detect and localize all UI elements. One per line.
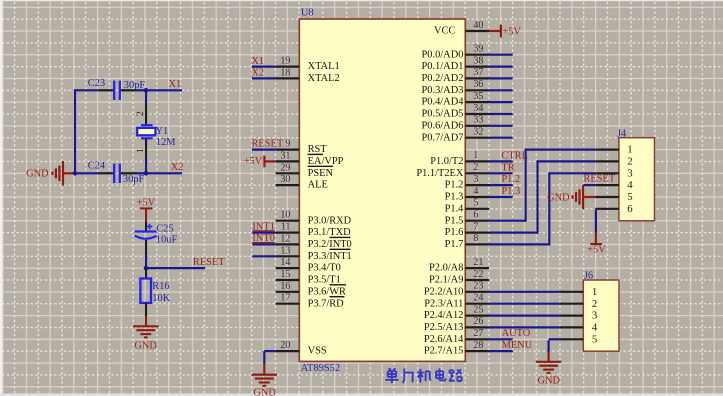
svg-text:5: 5: [473, 198, 478, 209]
node X2 junction: [144, 171, 149, 176]
pin 31 EA/VPP: [276, 160, 300, 162]
ground GND (left, sideways): [53, 161, 64, 185]
ground GND (J6): [536, 362, 561, 373]
pin 16 P3.6/WR: [276, 291, 300, 293]
svg-text:10uF: 10uF: [156, 235, 178, 246]
svg-text:31: 31: [280, 150, 290, 161]
svg-text:22: 22: [473, 269, 483, 280]
svg-text:X2: X2: [171, 162, 184, 173]
svg-text:28: 28: [473, 340, 483, 351]
svg-text:4: 4: [592, 322, 598, 334]
wire net P1.3: [489, 196, 513, 198]
node RESET junction: [144, 266, 149, 271]
svg-text:P1.4: P1.4: [445, 203, 465, 214]
IC U8 AT89S52 body: [299, 19, 465, 361]
svg-text:3: 3: [592, 310, 597, 322]
power +5V (pin 31): [264, 160, 275, 162]
svg-text:XTAL1: XTAL1: [308, 61, 340, 72]
pin 20 VSS: [276, 350, 300, 352]
pin 6 J4: [595, 208, 619, 210]
node C24 left junction: [73, 171, 78, 176]
svg-text:P0.7/AD7: P0.7/AD7: [422, 132, 464, 143]
wire to crystal top node: [136, 89, 147, 91]
pin 32 P0.7/AD7: [465, 137, 489, 139]
wire X2 stub: [146, 172, 182, 174]
svg-text:C25: C25: [156, 224, 173, 235]
svg-text:38: 38: [473, 55, 483, 66]
svg-text:10: 10: [280, 210, 290, 221]
wire X1 (pin 19): [252, 65, 276, 67]
svg-text:P0.5/AD5: P0.5/AD5: [422, 109, 464, 120]
pin 2 J4: [595, 160, 619, 162]
wire P0 stub: [489, 137, 513, 139]
svg-text:27: 27: [473, 328, 483, 339]
svg-text:TR: TR: [501, 162, 514, 173]
svg-text:2: 2: [592, 298, 597, 310]
svg-text:P0.0/AD0: P0.0/AD0: [422, 49, 464, 60]
svg-text:AUTO: AUTO: [502, 328, 531, 339]
wire P0 stub: [489, 77, 513, 79]
svg-text:26: 26: [473, 316, 483, 327]
svg-text:+5V: +5V: [244, 156, 263, 167]
svg-text:10K: 10K: [152, 293, 170, 304]
crystal Y1: [137, 125, 155, 138]
capacitor C23: [114, 81, 120, 100]
svg-text:39: 39: [473, 44, 483, 55]
ground GND (R16): [133, 326, 158, 337]
pin 4 P1.3: [465, 196, 489, 198]
svg-text:12: 12: [280, 233, 290, 244]
pin 2 J6: [560, 303, 584, 305]
svg-text:12M: 12M: [156, 137, 176, 148]
svg-text:P1.3: P1.3: [501, 186, 520, 197]
wire net RESET (J4 pin 4): [583, 184, 595, 186]
svg-text:RESET: RESET: [252, 139, 284, 150]
wire X2 (pin 18): [252, 77, 276, 79]
svg-text:GND: GND: [547, 192, 570, 203]
svg-text:P2.0/A8: P2.0/A8: [429, 263, 463, 274]
svg-text:+5V: +5V: [587, 245, 606, 256]
svg-text:4: 4: [473, 186, 478, 197]
ground GND (VSS): [252, 375, 277, 386]
svg-text:P2.2/A10: P2.2/A10: [424, 286, 464, 297]
pin 21 P2.0/A8: [465, 267, 489, 269]
+5V bar: [140, 207, 152, 209]
+5V bar (J4): [590, 243, 602, 245]
wire net MENU: [489, 350, 513, 352]
svg-text:P3.3/INT1: P3.3/INT1: [308, 251, 352, 262]
caption 单片机电路 (MCU circuit): [385, 368, 461, 383]
wire C25 to RESET node: [145, 254, 147, 269]
wire P0 stub: [489, 65, 513, 67]
ground GND (J4, sideways): [573, 185, 584, 209]
svg-text:2: 2: [627, 156, 632, 168]
capacitor C24 right pin: [121, 172, 136, 174]
pin 8 P1.7: [465, 243, 489, 245]
wire net CTRL: [489, 160, 513, 162]
svg-text:C23: C23: [88, 78, 105, 89]
pin 35 P0.4/AD4: [465, 101, 489, 103]
pin 25 P2.4/A12: [465, 315, 489, 317]
svg-text:AT89S52: AT89S52: [301, 363, 340, 374]
svg-text:XTAL2: XTAL2: [308, 73, 340, 84]
svg-text:U8: U8: [301, 7, 314, 18]
capacitor C25 (electrolytic): [135, 224, 157, 239]
wire RESET stub: [146, 267, 205, 269]
svg-text:P0.6/AD6: P0.6/AD6: [422, 120, 464, 131]
svg-text:7: 7: [473, 221, 478, 232]
svg-text:33: 33: [473, 115, 483, 126]
wire P0 stub: [489, 113, 513, 115]
svg-text:GND: GND: [26, 169, 49, 180]
svg-text:37: 37: [473, 67, 483, 78]
pin 1 J6: [560, 291, 584, 293]
svg-text:X1: X1: [251, 56, 264, 67]
pin 18 XTAL2: [276, 77, 300, 79]
svg-text:P2.4/A12: P2.4/A12: [424, 310, 464, 321]
svg-text:13: 13: [280, 245, 290, 256]
pin 19 XTAL1: [276, 65, 300, 67]
svg-text:19: 19: [280, 56, 290, 67]
svg-text:29: 29: [280, 162, 290, 173]
svg-text:P3.7/RD: P3.7/RD: [308, 298, 345, 309]
svg-text:3: 3: [627, 167, 632, 179]
pin 3 P1.2: [465, 184, 489, 186]
svg-text:RST: RST: [308, 144, 328, 155]
svg-text:4: 4: [627, 179, 633, 191]
svg-text:8: 8: [473, 233, 478, 244]
wire net P1.2: [489, 184, 513, 186]
pin 30 ALE: [276, 184, 300, 186]
pin 10 P3.0/RXD: [276, 220, 300, 222]
svg-text:P1.2: P1.2: [501, 174, 520, 185]
pin 29 PSEN: [276, 172, 300, 174]
svg-text:MENU: MENU: [502, 340, 533, 351]
wire net AUTO: [489, 338, 513, 340]
svg-text:P2.7/A15: P2.7/A15: [424, 346, 464, 357]
svg-text:40: 40: [473, 20, 483, 31]
svg-text:18: 18: [280, 67, 290, 78]
svg-text:GND: GND: [538, 375, 561, 386]
svg-text:23: 23: [473, 281, 483, 292]
wire P1.7 to J4 pin 3: [489, 243, 549, 245]
+5V stem: [145, 208, 147, 221]
svg-text:C24: C24: [88, 161, 106, 172]
wire INT0 (pin 12): [252, 243, 275, 245]
svg-text:34: 34: [473, 103, 483, 114]
svg-text:2: 2: [135, 111, 146, 116]
wire crystal top: [145, 90, 147, 103]
pin 24 P2.3/A11: [465, 303, 489, 305]
pin 12 P3.2/INT0: [276, 243, 300, 245]
svg-text:P1.2: P1.2: [445, 180, 464, 191]
svg-text:X1: X1: [169, 79, 182, 90]
svg-text:1: 1: [592, 286, 597, 298]
wire INT1 (pin 11): [252, 232, 275, 234]
svg-text:P0.2/AD2: P0.2/AD2: [422, 73, 464, 84]
wire X2 row left: [75, 172, 99, 174]
resistor R16: [140, 279, 151, 303]
window edge top: [0, 0, 723, 1]
pin 3 J6: [560, 315, 584, 317]
pin 34 P0.5/AD5: [465, 113, 489, 115]
svg-text:EA/VPP: EA/VPP: [308, 156, 344, 167]
svg-text:X2: X2: [251, 68, 264, 79]
svg-text:20: 20: [280, 340, 290, 351]
wire RESET (pin 9): [252, 149, 276, 151]
svg-text:1: 1: [135, 148, 146, 153]
pin 5 J4: [595, 196, 619, 198]
pin 7 P1.6: [465, 232, 489, 234]
wire J6 pin 5 to ground: [549, 338, 560, 340]
pin 5 J6: [560, 338, 584, 340]
power +5V (VCC pin 40): [489, 30, 501, 32]
svg-text:1: 1: [473, 150, 478, 161]
pin 26 P2.5/A13: [465, 326, 489, 328]
wire net TR: [489, 172, 513, 174]
wire P1.6 to J4 pin 2: [489, 232, 538, 234]
svg-text:GND: GND: [134, 340, 157, 351]
pin 15 P3.5/T1: [276, 279, 300, 281]
svg-text:P3.2/INT0: P3.2/INT0: [308, 239, 352, 250]
svg-text:21: 21: [473, 257, 483, 268]
svg-text:P2.1/A9: P2.1/A9: [429, 275, 463, 286]
svg-text:2: 2: [473, 162, 478, 173]
pin 6 P1.5: [465, 220, 489, 222]
svg-text:15: 15: [280, 269, 290, 280]
svg-text:16: 16: [280, 281, 290, 292]
svg-text:CTRL: CTRL: [501, 151, 528, 162]
svg-text:P3.0/RXD: P3.0/RXD: [308, 215, 352, 226]
svg-text:5: 5: [592, 333, 597, 345]
svg-text:RESET: RESET: [583, 174, 615, 185]
pin 4 J6: [560, 326, 584, 328]
pin 23 P2.2/A10: [465, 291, 489, 293]
pin 33 P0.6/AD6: [465, 125, 489, 127]
window edge left: [0, 0, 2, 396]
svg-text:P0.4/AD4: P0.4/AD4: [422, 97, 465, 108]
wire GND to junction: [64, 172, 75, 174]
pin 27 P2.6/A14: [465, 338, 489, 340]
capacitor C24: [114, 164, 120, 183]
svg-text:P3.1/TXD: P3.1/TXD: [308, 227, 352, 238]
svg-text:+5V: +5V: [137, 197, 156, 208]
svg-text:P3.5/T1: P3.5/T1: [308, 275, 341, 286]
svg-text:P1.0/T2: P1.0/T2: [430, 156, 463, 167]
svg-text:9: 9: [285, 139, 290, 150]
wires P2.2-P2.5 to J6: [489, 291, 560, 293]
svg-text:6: 6: [627, 203, 633, 215]
svg-text:1: 1: [627, 144, 632, 156]
wire VSS to ground: [264, 350, 275, 352]
pin 36 P0.3/AD3: [465, 89, 489, 91]
wire X1 stub: [146, 89, 182, 91]
svg-text:32: 32: [473, 127, 483, 138]
wire (pin 13): [252, 255, 275, 257]
crystal Y1 pin 2: [145, 104, 147, 126]
wire left vertical: [74, 89, 76, 173]
capacitor C23 left pin: [99, 89, 114, 91]
wire P1.5 to J4 pin 1: [489, 220, 526, 222]
svg-text:Y1: Y1: [156, 126, 169, 137]
resistor R16 top pin: [145, 268, 147, 278]
wire P0 stub: [489, 101, 513, 103]
pin 13 P3.3/INT1: [276, 255, 300, 257]
svg-text:P0.1/AD1: P0.1/AD1: [422, 61, 464, 72]
wire GND to J4 pin 5: [584, 196, 595, 198]
svg-text:VCC: VCC: [434, 26, 455, 37]
wire R16 to GND: [145, 316, 147, 326]
svg-text:17: 17: [280, 293, 290, 304]
pin 37 P0.2/AD2: [465, 77, 489, 79]
svg-text:ALE: ALE: [308, 180, 328, 191]
wire P0 stub: [489, 89, 513, 91]
wire X1 row left: [75, 89, 99, 91]
connector J4: [619, 138, 655, 221]
svg-text:P1.5: P1.5: [445, 215, 464, 226]
svg-text:P2.3/A11: P2.3/A11: [424, 298, 463, 309]
svg-text:P1.6: P1.6: [445, 227, 464, 238]
svg-text:36: 36: [473, 79, 483, 90]
pin 3 J4: [595, 172, 619, 174]
svg-text:14: 14: [280, 257, 290, 268]
wire P0 stub: [489, 125, 513, 127]
wire crystal bottom: [145, 158, 147, 173]
svg-text:+5V: +5V: [502, 26, 521, 37]
svg-text:P0.3/AD3: P0.3/AD3: [422, 85, 464, 96]
svg-text:P2.5/A13: P2.5/A13: [424, 322, 464, 333]
pin 22 P2.1/A9: [465, 279, 489, 281]
svg-text:24: 24: [473, 293, 483, 304]
pin 14 P3.4/T0: [276, 267, 300, 269]
svg-text:P3.4/T0: P3.4/T0: [308, 263, 341, 274]
svg-text:30: 30: [280, 174, 290, 185]
pin 11 P3.1/TXD: [276, 232, 300, 234]
pin 5 P1.4: [465, 208, 489, 210]
svg-text:VSS: VSS: [308, 346, 327, 357]
svg-text:11: 11: [281, 222, 291, 233]
capacitor C24 left pin: [99, 172, 114, 174]
pin 40 VCC: [465, 30, 489, 32]
pin 28 P2.7/A15: [465, 350, 489, 352]
svg-text:6: 6: [473, 210, 478, 221]
svg-text:P3.6/WR: P3.6/WR: [308, 286, 346, 297]
pin 4 J4: [595, 184, 619, 186]
pin 38 P0.1/AD1: [465, 65, 489, 67]
svg-text:GND: GND: [253, 388, 276, 396]
pin 2 P1.1/T2EX: [465, 172, 489, 174]
svg-text:RESET: RESET: [193, 257, 225, 268]
wire J4 pin 6 to +5V: [595, 210, 597, 233]
pin 1 J4: [595, 149, 619, 151]
wire P0 stub: [489, 54, 513, 56]
node X1 junction: [144, 88, 149, 93]
svg-text:P2.6/A14: P2.6/A14: [424, 334, 464, 345]
window edge bottom: [0, 393, 723, 396]
svg-text:P1.7: P1.7: [445, 239, 464, 250]
svg-text:R16: R16: [152, 281, 169, 292]
svg-text:3: 3: [473, 174, 478, 185]
wire to crystal bottom node: [136, 172, 147, 174]
capacitor C23 right pin: [121, 89, 136, 91]
svg-text:25: 25: [473, 304, 483, 315]
svg-text:5: 5: [627, 191, 632, 203]
svg-text:P1.3: P1.3: [445, 192, 464, 203]
capacitor C25 bottom pin: [145, 240, 147, 254]
pin 9 RST: [276, 149, 300, 151]
capacitor C25 top pin: [145, 222, 147, 231]
connector J6: [583, 280, 619, 351]
svg-text:30pF: 30pF: [123, 174, 145, 185]
crystal Y1 pin 1: [145, 139, 147, 158]
pin 1 P1.0/T2: [465, 160, 489, 162]
pin 17 P3.7/RD: [276, 303, 300, 305]
resistor R16 bottom pin: [145, 303, 147, 316]
svg-text:PSEN: PSEN: [308, 168, 334, 179]
svg-text:P1.1/T2EX: P1.1/T2EX: [416, 168, 464, 179]
pin 39 P0.0/AD0: [465, 54, 489, 56]
svg-text:35: 35: [473, 91, 483, 102]
